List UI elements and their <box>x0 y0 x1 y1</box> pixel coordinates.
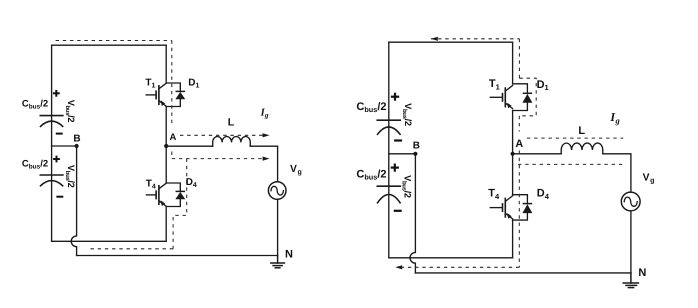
label - bottom cap (right) <box>394 210 402 212</box>
dashed top run (left circuit) <box>56 40 172 42</box>
dashed bypass around D4 (left circuit) <box>173 159 187 249</box>
dashed branch to grid lower (right circuit) <box>518 163 623 165</box>
wire bridge leg middle (right circuit) <box>512 111 514 195</box>
ground N (right circuit) <box>623 273 638 288</box>
dashed current path (right circuit) <box>399 39 624 267</box>
wire bridge leg middle (left circuit) <box>165 107 167 184</box>
arrow on bottom dashed return (right circuit) <box>395 265 402 269</box>
node B dot (left circuit) <box>75 144 79 148</box>
diode D1 (left circuit, antiparallel) <box>166 83 185 107</box>
wire Vg to neutral (right circuit) <box>630 211 632 273</box>
svg-text:B: B <box>413 141 420 152</box>
dashed right vertical upper (left circuit) <box>171 41 173 124</box>
dashed bypass around D1 (right circuit) <box>519 78 536 116</box>
dashed current path (left circuit) <box>56 41 267 249</box>
node A dot (right circuit) <box>510 152 514 156</box>
svg-text:A: A <box>515 138 523 150</box>
wire inductor to Vg (left circuit) <box>250 146 277 182</box>
wire node A to inductor (right circuit) <box>513 153 562 155</box>
wire bottom neutral line (right circuit) <box>415 272 631 274</box>
label - top cap (right) <box>394 139 402 141</box>
label - bottom cap (left) <box>56 196 63 198</box>
source Vg (left circuit) <box>268 182 286 200</box>
wire rail midpoint to node B (right circuit) <box>389 153 416 155</box>
dashed bottom return (left circuit) <box>87 248 173 250</box>
dashed top run (right circuit) <box>431 38 520 40</box>
dashed right vertical upper (right circuit) <box>518 39 520 78</box>
svg-text:B: B <box>73 134 80 145</box>
wire bridge leg upper (right circuit) <box>512 42 514 84</box>
inductor L (left circuit) <box>213 136 251 146</box>
arrow on top dashed run (right circuit) <box>431 37 438 41</box>
wire top bus (left circuit) <box>52 44 167 46</box>
dashed branch to grid upper (right circuit) <box>527 137 623 139</box>
wire inductor to Vg (right circuit) <box>603 154 631 192</box>
label + bottom cap (left) <box>53 156 60 163</box>
wire Vg to neutral (left circuit) <box>277 199 279 255</box>
svg-text:L: L <box>578 125 585 137</box>
diode D1 (right circuit, antiparallel) <box>513 84 533 111</box>
wire node B down with hop over DC- wire (left circuit) <box>71 146 76 256</box>
wire top bus (right circuit) <box>389 41 513 43</box>
wire DC- bottom bus (right circuit) <box>389 257 513 259</box>
diode D4 (right circuit, antiparallel) <box>513 195 533 220</box>
dashed right vertical below A (left circuit) <box>171 152 173 159</box>
capacitor C_bus/2 top (right circuit) <box>377 120 400 134</box>
dashed branch from A upper (left circuit) <box>180 134 267 136</box>
dashed bottom return (right circuit) <box>399 266 520 268</box>
svg-text:N: N <box>638 267 646 279</box>
wire left DC rail (left circuit, through capacitors) <box>51 45 53 241</box>
transistor T1 (left circuit IGBT) <box>146 83 166 106</box>
capacitor C_bus/2 top (left circuit) <box>40 116 63 127</box>
label - top cap (left) <box>56 133 63 135</box>
transistor T1 (right circuit IGBT) <box>490 86 512 109</box>
wire node A to inductor (left circuit) <box>166 145 213 147</box>
node B dot (right circuit) <box>413 152 417 156</box>
source Vg (right circuit) <box>621 192 640 211</box>
transistor T4 (right circuit IGBT) <box>490 196 512 219</box>
inductor L (right circuit) <box>561 143 603 154</box>
wire bridge leg upper (left circuit) <box>165 45 167 83</box>
transistor T4 (left circuit IGBT) <box>146 183 166 206</box>
wire rail midpoint to node B (left circuit) <box>52 145 77 147</box>
svg-text:L: L <box>228 117 235 129</box>
node A dot (left circuit) <box>164 144 168 148</box>
wire bridge leg lower (left circuit) <box>165 207 167 242</box>
wire left DC rail (right circuit, through capacitors) <box>388 42 390 258</box>
dashed branch to grid lower (left circuit) <box>172 158 267 160</box>
diode D4 (left circuit, antiparallel) <box>166 183 185 207</box>
label + top cap (right) <box>391 93 399 101</box>
wire bridge leg lower (right circuit) <box>512 220 514 258</box>
ground N (left circuit) <box>271 256 285 268</box>
wire DC- bottom bus (left circuit) <box>52 240 167 242</box>
label + top cap (left) <box>53 90 60 97</box>
wire bottom neutral line (left circuit) <box>77 255 278 257</box>
svg-text:N: N <box>285 248 293 260</box>
arrow on lower dashed branch (left circuit) <box>263 157 270 161</box>
svg-text:A: A <box>169 132 176 143</box>
dashed vertical above A (right circuit) <box>518 116 520 132</box>
capacitor C_bus/2 bottom (left circuit) <box>40 175 63 186</box>
arrow on upper dashed branch (left circuit) <box>263 133 270 137</box>
label + bottom cap (right) <box>391 164 399 172</box>
dashed vertical below A through T4 (right circuit) <box>518 151 520 268</box>
wire node B down with hop over DC- wire (right circuit) <box>410 154 415 273</box>
capacitor C_bus/2 bottom (right circuit) <box>377 186 400 203</box>
